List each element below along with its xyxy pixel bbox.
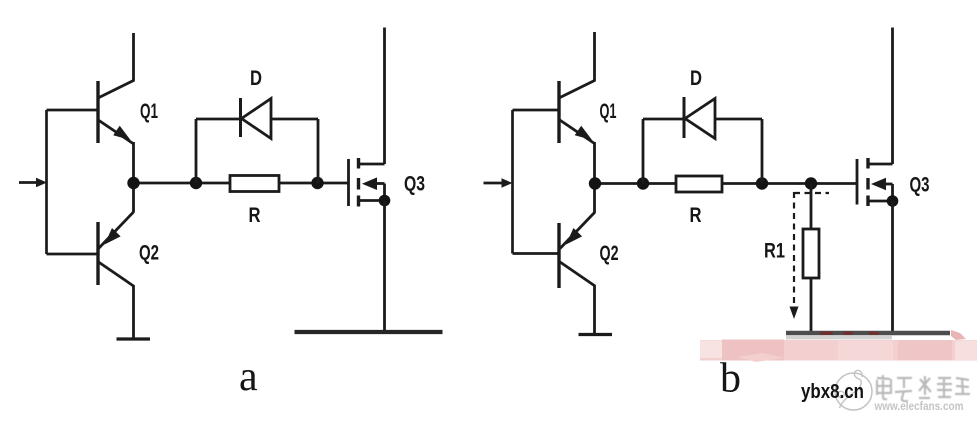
node: junction dot 1 (circuit b)	[589, 177, 601, 189]
svg-text:Q1: Q1	[600, 100, 617, 123]
transistor Q2 (PNP, circuit b)	[513, 212, 596, 288]
svg-text:R: R	[249, 204, 261, 227]
node: junction dot 4 / R1 tap (circuit b)	[805, 177, 817, 189]
svg-text:a: a	[239, 354, 258, 400]
ground rail (circuit a)	[295, 330, 443, 334]
svg-text:D: D	[250, 67, 262, 90]
svg-text:b: b	[720, 356, 741, 402]
ground rail shadow strip	[786, 335, 892, 339]
node: Q3 source junction dot (circuit a)	[379, 195, 391, 207]
resistor R1 (circuit b)	[803, 184, 819, 333]
svg-text:Q2: Q2	[139, 242, 159, 265]
wire: base bus vertical (circuit b)	[511, 110, 514, 254]
svg-text:Q2: Q2	[600, 242, 619, 265]
input arrow (circuit a)	[19, 178, 47, 187]
svg-text:Q3: Q3	[910, 174, 930, 197]
watermark logo circle (elecfans)	[835, 370, 872, 410]
wire: base bus vertical (circuit a)	[45, 110, 48, 254]
svg-text:D: D	[690, 67, 702, 90]
diode D (circuit b)	[643, 97, 762, 184]
ground (circuit a, Q2 collector)	[117, 337, 151, 340]
svg-text:Q3: Q3	[404, 173, 425, 196]
wire: Q1 collector to top (circuit a)	[132, 33, 135, 82]
ground rail (circuit b, grey bar)	[786, 331, 950, 335]
wire: Q3 drain to top (circuit b)	[891, 28, 894, 165]
svg-text:R: R	[690, 204, 702, 227]
input arrow (circuit b)	[484, 178, 513, 187]
resistor R (circuit b)	[676, 176, 722, 192]
wire: Q2 collector down (circuit b)	[593, 285, 596, 333]
wire: Q2 collector down (circuit a)	[132, 285, 135, 338]
wire: main gate bus (circuit a)	[134, 182, 231, 185]
wire: Q1 emitter / Q2 emitter vertical (circuit b)	[593, 142, 596, 213]
wire: Q1 emitter / Q2 emitter vertical (circuit a)	[132, 142, 135, 213]
ground (circuit b, Q2 collector)	[579, 333, 613, 336]
svg-text:R1: R1	[764, 240, 785, 263]
wire: Q3 source down (circuit a)	[383, 201, 386, 331]
node: junction dot 3 (circuit b)	[756, 177, 768, 189]
pink watermark strip	[700, 330, 977, 362]
wire: Q1 collector to top (circuit b)	[593, 32, 596, 82]
svg-text:www.elecfans.com: www.elecfans.com	[874, 399, 964, 413]
dashed current path with arrow (circuit b)	[794, 192, 829, 310]
svg-text:Q1: Q1	[140, 100, 158, 123]
node: junction dot 3 (circuit a)	[311, 177, 323, 189]
wire: main gate bus (circuit b)	[595, 182, 677, 185]
wire: Q3 drain to top (circuit a)	[383, 28, 386, 165]
node: junction dot 1 (circuit a)	[127, 177, 139, 189]
node: Q3 source junction dot (circuit b)	[887, 195, 899, 207]
resistor R (circuit a)	[230, 176, 279, 192]
node: junction dot 2 (circuit a)	[190, 177, 202, 189]
red watermark remnants on rail	[820, 332, 879, 336]
transistor Q2 (PNP, circuit a)	[47, 212, 134, 286]
MOSFET Q3 (circuit b)	[857, 158, 893, 206]
wire: Q3 source down (circuit b)	[891, 201, 894, 331]
svg-text:ybx8.cn: ybx8.cn	[801, 381, 864, 403]
transistor Q1 (NPN, circuit b)	[513, 81, 595, 144]
MOSFET Q3 (circuit a)	[349, 158, 385, 207]
node: junction dot 2 (circuit b)	[637, 177, 649, 189]
transistor Q1 (NPN, circuit a)	[47, 81, 134, 144]
diode D (circuit a)	[196, 98, 318, 183]
